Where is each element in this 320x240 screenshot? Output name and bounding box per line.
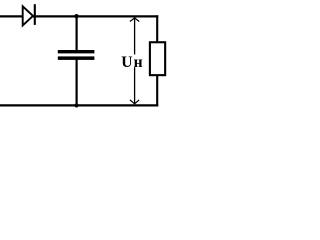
wire: capacitor top lead	[75, 16, 77, 50]
resistor R load rectangle	[150, 42, 165, 75]
node: bottom junction dot	[74, 103, 78, 107]
svg-text:Uн: Uн	[121, 54, 142, 71]
wire: right branch lower vertical segment	[156, 76, 158, 107]
arrow: Uн dimension arrow shaft upper segment	[134, 18, 136, 55]
arrowhead: top, pointing up	[130, 18, 139, 22]
arrowhead: bottom, pointing down	[130, 100, 139, 104]
diode VD1 cathode bar	[34, 4, 36, 25]
wire: capacitor bottom lead	[75, 60, 77, 106]
wire: right branch upper vertical segment	[156, 15, 158, 42]
diode VD1 triangle (anode)	[23, 6, 33, 25]
wire: top horizontal rail	[0, 15, 158, 17]
node: top junction dot	[74, 14, 78, 18]
arrow: Uн dimension arrow shaft lower segment	[134, 67, 136, 104]
capacitor C1 bottom plate	[58, 56, 95, 60]
wire: bottom horizontal rail	[0, 104, 158, 106]
capacitor C1 top plate	[58, 50, 95, 53]
